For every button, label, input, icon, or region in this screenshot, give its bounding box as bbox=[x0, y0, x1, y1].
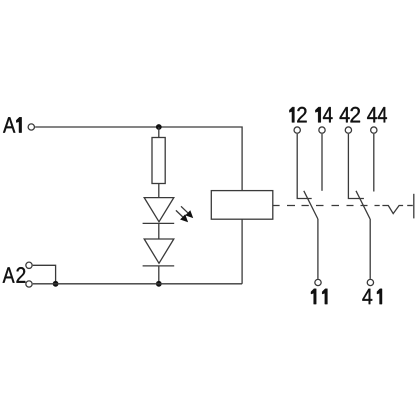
terminal A2 lower bbox=[26, 281, 32, 287]
wire A1 to coil (top rail) bbox=[35, 127, 242, 191]
terminal A1 bbox=[28, 124, 34, 130]
terminal 11 bbox=[315, 279, 321, 285]
linkage dash end bbox=[407, 205, 413, 207]
wire 44 (NO) bbox=[373, 134, 375, 192]
terminal 41 bbox=[367, 279, 373, 285]
wire resistor to LED bbox=[158, 184, 160, 198]
wire 14 (NO) bbox=[321, 134, 323, 191]
terminal 14 bbox=[319, 127, 325, 133]
LED light arrow upper bbox=[181, 206, 193, 218]
pin label 14 bbox=[315, 107, 332, 122]
junction node on A2 rail bbox=[156, 281, 162, 287]
wire blade to 11 bbox=[317, 219, 319, 279]
wire A2 bridge bbox=[33, 265, 56, 284]
diode (suppressor) bbox=[143, 239, 175, 266]
pin label 44 bbox=[367, 107, 387, 122]
pin label 11 bbox=[311, 289, 327, 304]
LED diode bbox=[143, 198, 175, 224]
LED light arrow lower bbox=[176, 210, 188, 222]
wire blade to 41 bbox=[369, 219, 371, 279]
pin label 12 bbox=[289, 107, 306, 123]
terminal A2 upper bbox=[26, 262, 32, 268]
junction node A2 bridge bbox=[53, 281, 59, 287]
wire LED to diode bbox=[158, 223, 160, 239]
mechanical linkage (dashed) bbox=[273, 205, 380, 207]
terminal 44 bbox=[371, 127, 377, 133]
contact blade 12-11 bbox=[304, 191, 318, 219]
terminal 12 bbox=[294, 127, 300, 133]
wire 42 with NC seat bbox=[348, 134, 364, 199]
wire A2 bottom rail bbox=[33, 283, 242, 285]
wire coil to bottom rail bbox=[241, 219, 243, 284]
linkage detent V bbox=[382, 206, 403, 214]
pin label 41 bbox=[362, 289, 382, 304]
junction node on A1 rail bbox=[156, 124, 162, 130]
relay coil K bbox=[211, 191, 272, 220]
terminal label A1 bbox=[3, 117, 22, 132]
terminal 42 bbox=[345, 127, 351, 133]
contact blade 42-41 bbox=[356, 191, 370, 219]
terminal label A2 bbox=[3, 267, 26, 283]
wire 12 with NC seat bbox=[297, 134, 312, 199]
resistor R bbox=[152, 138, 165, 184]
wire diode to bottom rail bbox=[158, 266, 160, 284]
pin label 42 bbox=[340, 107, 360, 123]
wire junction to resistor bbox=[158, 127, 160, 138]
linkage end bar bbox=[413, 194, 415, 219]
